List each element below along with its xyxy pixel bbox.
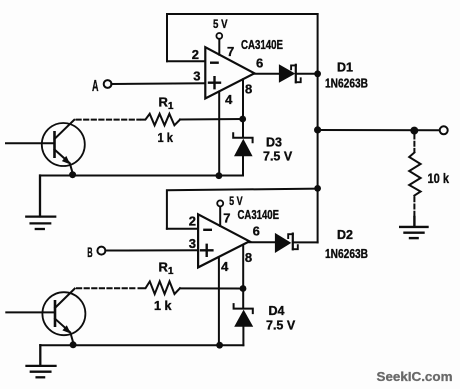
wire: output node to terminal [318,129,440,131]
node: loop2-bus junction [314,185,321,192]
U2 pin 4 wire [218,257,220,345]
wire: dashed to 10k [413,135,415,153]
svg-text:6: 6 [256,55,263,70]
wire: R1 to pin8 node (lower) [180,287,243,289]
wire: dashed 10k to ground [413,197,415,217]
U1 minus sign [211,62,217,64]
node: 10k tap junction [410,127,418,135]
svg-text:1 k: 1 k [158,131,174,145]
svg-text:D4: D4 [269,304,285,318]
svg-text:R1: R1 [159,259,174,277]
wire: A to U1 pin 3 [111,82,205,85]
svg-text:10 k: 10 k [428,171,450,186]
resistor R1 (upper) 1k [142,114,181,126]
svg-text:1N6263B: 1N6263B [325,247,368,261]
wire: U2 output pin 6 [249,241,275,243]
wire: ground rail upper [40,175,243,177]
transistor Q2 [6,289,85,343]
diode D1 1N6263B [279,64,301,83]
ground (upper left) [26,176,55,230]
U2 minus sign [204,229,210,231]
wire: dashed Q1 collector to R1 [77,119,141,121]
transistor Q1 [6,120,85,173]
U2 plus sign [201,245,212,256]
wire: R1 to pin8 node [180,118,243,121]
node: pin8-R1 junction [239,116,246,123]
svg-text:CA3140E: CA3140E [238,208,280,222]
svg-text:A: A [92,78,99,95]
wire: ground rail lower [40,344,243,346]
svg-text:4: 4 [225,92,233,107]
wire: U1 pin 2 input [167,60,205,62]
U1 pin 8 wire [242,79,244,137]
op-amp U1 CA3140E triangle [205,47,254,98]
zener diode D3 7.5V [233,133,252,175]
U2 pin 8 wire [242,246,244,309]
wire: B to U2 pin 3 [105,249,198,251]
svg-text:7.5 V: 7.5 V [263,149,293,163]
wire: dashed Q2 collector to R1 [77,287,137,289]
node: Q2 emitter-rail junction [70,341,77,348]
node: pin4-rail junction [216,172,223,179]
svg-text:SeekIC.com: SeekIC.com [377,369,453,384]
svg-text:7: 7 [227,44,234,59]
svg-text:1 k: 1 k [154,299,172,313]
node: bus-output junction [314,126,321,133]
svg-text:D3: D3 [266,135,282,149]
U1 pin 7 wire [218,39,220,55]
U2 pin 7 wire [219,207,221,227]
zener diode D4 7.5V [234,304,254,345]
svg-text:2: 2 [192,47,199,62]
U1 pin 4 wire [218,92,220,176]
node B terminal [97,247,105,255]
U1 plus sign [209,77,220,88]
node A terminal [104,80,112,88]
svg-text:D2: D2 [337,228,353,242]
wire: U1 output pin 6 [254,73,279,75]
diode D2 1N6263B [275,233,298,253]
resistor 10k [409,153,420,196]
svg-text:2: 2 [189,214,196,229]
ground (right) [400,217,427,238]
output terminal [440,126,448,134]
wire: U2 pin 2 input [167,228,198,230]
wire: D2 cathode to bus [293,241,318,243]
svg-text:CA3140E: CA3140E [241,38,283,52]
svg-text:7: 7 [223,210,230,225]
svg-text:B: B [87,244,92,260]
svg-text:6: 6 [253,223,260,238]
wire: U1 feedback loop top [167,14,318,61]
svg-text:4: 4 [221,259,229,274]
U2 5V terminal [217,200,223,206]
svg-text:R1: R1 [159,94,174,112]
svg-text:5 V: 5 V [213,17,228,31]
svg-text:3: 3 [189,236,196,251]
wire: U2 feedback loop top [167,189,318,229]
svg-text:8: 8 [245,82,252,97]
U1 5V terminal [216,33,222,39]
node: D1-bus junction [314,70,321,77]
svg-text:D1: D1 [337,60,353,74]
svg-text:1N6263B: 1N6263B [325,77,368,91]
op-amp U2 CA3140E triangle [198,214,249,267]
node: pin4-rail junction (lower) [216,342,223,349]
wire: D1 cathode to bus [296,73,318,75]
wire: output bus vertical [317,14,319,242]
ground (lower left) [27,345,56,377]
node: Q1 emitter-rail junction [69,171,76,178]
resistor R1 (lower) 1k [139,281,181,294]
svg-text:8: 8 [245,250,252,265]
node: pin8-R1 junction (lower) [240,285,247,292]
svg-text:3: 3 [193,68,200,83]
svg-text:7.5 V: 7.5 V [266,319,296,333]
svg-text:5 V: 5 V [229,194,243,208]
